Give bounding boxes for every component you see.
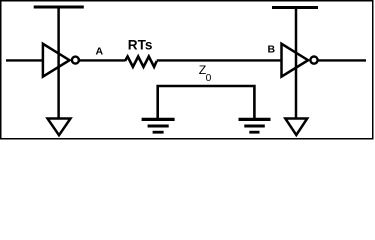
wire input left — [6, 59, 42, 61]
wire A — [80, 59, 125, 61]
transmission line Z0 — [158, 63, 255, 118]
svg-text:0: 0 — [206, 73, 212, 84]
ground (bars) right of Z0 — [239, 119, 271, 132]
power rail left — [34, 6, 84, 9]
svg-text:RTs: RTs — [128, 37, 153, 52]
svg-text:B: B — [268, 44, 276, 56]
power rail right — [272, 6, 318, 9]
wire RTs to B — [157, 59, 281, 61]
wire output — [318, 59, 366, 61]
resistor RTs — [125, 37, 157, 67]
wire power-to-ground left — [57, 9, 60, 119]
ground (bars) left of Z0 — [142, 119, 175, 132]
wire power-to-ground right — [295, 9, 298, 119]
ground (arrow) left — [48, 119, 71, 136]
ground (arrow) right — [285, 119, 307, 136]
svg-text:A: A — [96, 46, 104, 58]
inverter U1 — [43, 44, 79, 77]
inverter U2 — [282, 44, 318, 77]
